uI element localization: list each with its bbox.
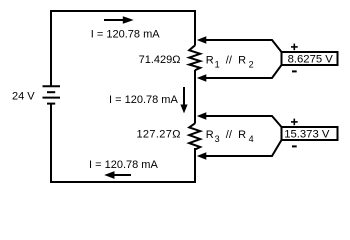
svg-text:4: 4 [249, 134, 254, 144]
svg-text:I = 120.78 mA: I = 120.78 mA [109, 94, 178, 106]
polarity minus V1 [292, 70, 297, 72]
svg-text:71.429Ω: 71.429Ω [139, 54, 181, 66]
svg-text:R: R [206, 129, 214, 141]
svg-text://: // [226, 129, 233, 141]
svg-text:R: R [238, 129, 246, 141]
svg-text:R: R [206, 55, 214, 67]
svg-text:8.6275 V: 8.6275 V [288, 54, 334, 66]
svg-text:I = 120.78 mA: I = 120.78 mA [91, 28, 160, 40]
voltage box V2 [282, 127, 338, 140]
voltmeter lead V1 bottom with arrowhead [197, 65, 282, 82]
voltmeter lead V2 top with arrowhead [197, 112, 282, 127]
wire right upper [194, 10, 196, 46]
svg-text://: // [226, 55, 233, 67]
wire left lower (battery bottom lead) [50, 104, 52, 183]
current arrow middle (downward) [180, 87, 187, 113]
polarity plus V2 [291, 119, 298, 126]
svg-text:3: 3 [215, 134, 220, 144]
wire bottom rail [50, 181, 196, 183]
wire left upper (battery top lead) [50, 10, 52, 86]
wire right lower [194, 148, 196, 183]
battery B1 24 V [43, 86, 61, 103]
resistor R3 parallel R4 (zigzag) [189, 123, 200, 149]
svg-text:127.27Ω: 127.27Ω [136, 128, 180, 140]
current arrow bottom (leftward) [104, 171, 131, 179]
svg-text:24 V: 24 V [12, 91, 35, 103]
voltage box V1 [282, 52, 338, 65]
wire right middle [194, 70, 196, 124]
voltmeter lead V1 top with arrowhead [197, 36, 282, 52]
current arrow top (rightward) [104, 16, 134, 24]
svg-text:15.373 V: 15.373 V [284, 129, 330, 141]
svg-text:R: R [238, 55, 246, 67]
svg-text:I = 120.78 mA: I = 120.78 mA [89, 159, 158, 171]
svg-text:2: 2 [249, 60, 254, 70]
label R3 // R4 [206, 129, 254, 144]
voltmeter lead V2 bottom with arrowhead [197, 140, 282, 160]
resistor R1 parallel R2 (zigzag) [189, 45, 200, 70]
svg-text:1: 1 [215, 60, 220, 70]
polarity minus V2 [292, 145, 297, 147]
polarity plus V1 [291, 44, 298, 51]
wire top rail [50, 10, 196, 12]
label R1 // R2 [206, 55, 254, 70]
